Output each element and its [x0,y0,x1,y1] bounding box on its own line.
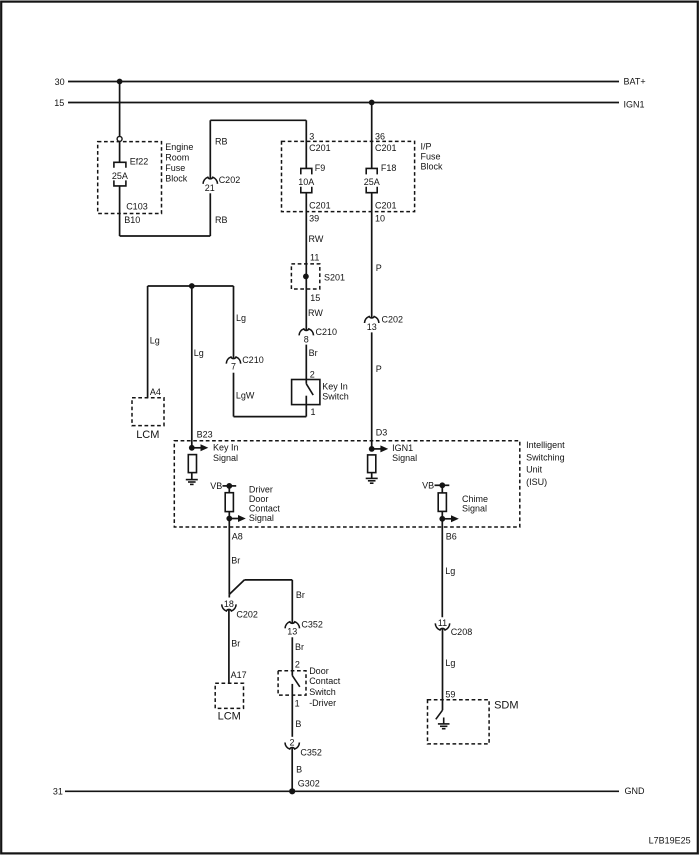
wire Br to door switch [291,637,293,670]
label Engine Room Fuse Block [165,142,193,184]
node VB chime dot [439,482,445,488]
svg-text:RB: RB [215,215,228,225]
svg-text:Door: Door [309,666,329,676]
wire resistor to ground [191,473,193,480]
resistor D3 [368,455,376,473]
label Door Contact Switch -Driver [309,666,341,708]
junction dot on bus 30 [117,79,123,85]
svg-text:Switch: Switch [309,687,336,697]
svg-text:Br: Br [231,555,240,565]
svg-text:B23: B23 [197,430,213,440]
svg-text:S201: S201 [324,273,345,283]
svg-text:Switching: Switching [526,452,565,462]
connector 8 C210 [299,329,313,336]
connector 2 C352 [285,743,299,750]
svg-text:LCM: LCM [136,429,159,441]
wire Lg to ISU B23 [191,286,193,448]
svg-text:C202: C202 [219,175,241,185]
arrow Key In Signal [192,444,209,451]
svg-text:Engine: Engine [165,142,193,152]
wire LgW vertical below connector 7 [233,373,235,417]
svg-text:C352: C352 [300,747,322,757]
Engine Room Fuse Block box [98,142,162,214]
svg-text:B10: B10 [124,215,140,225]
svg-text:Lg: Lg [445,658,455,668]
svg-text:18: 18 [224,599,234,609]
connector 18 C202 [222,604,236,611]
svg-text:Signal: Signal [249,513,274,523]
svg-text:F9: F9 [315,163,326,173]
wire VB dot to resistor [228,486,230,493]
svg-text:3: 3 [309,131,314,141]
svg-text:Driver: Driver [249,485,273,495]
svg-text:2: 2 [295,659,300,669]
svg-text:15: 15 [310,293,320,303]
svg-text:C103: C103 [126,202,148,212]
svg-text:25A: 25A [112,171,128,181]
svg-text:13: 13 [287,626,297,636]
svg-text:P: P [376,263,382,273]
svg-text:B: B [296,765,302,775]
arrow Chime Signal [442,515,459,522]
svg-text:B: B [295,719,301,729]
I/P Fuse Block box [282,141,415,211]
svg-text:31: 31 [53,787,63,797]
label Intelligent Switching Unit (ISU) [526,440,565,487]
svg-text:Intelligent: Intelligent [526,440,565,450]
Door Contact Switch box [278,671,306,695]
node B6 junction dot [439,516,445,522]
wire resistor to node B6 [441,511,443,527]
svg-text:Fuse: Fuse [165,163,185,173]
connector 11 C208 [435,623,449,630]
svg-text:1: 1 [311,407,316,417]
wire RW from F9 to connector 8 [305,193,307,331]
svg-text:IGN1: IGN1 [624,99,645,109]
svg-text:IGN1: IGN1 [392,443,413,453]
ground SDM [438,718,450,729]
label Chime Signal [462,494,488,514]
svg-text:8: 8 [304,335,309,345]
svg-text:Br: Br [296,590,305,600]
door switch pin 2 stub [291,671,293,676]
junction dot G302 [289,788,295,794]
svg-text:Switch: Switch [322,392,349,402]
wire RB horizontal top [210,119,306,121]
svg-text:Contact: Contact [249,504,281,514]
svg-text:Block: Block [165,174,188,184]
svg-text:RW: RW [309,234,324,244]
wire RB up to connector 21 [209,193,211,236]
SDM switch blade [436,710,443,719]
svg-text:I/P: I/P [421,142,432,152]
svg-text:A4: A4 [150,387,161,397]
svg-text:F18: F18 [381,163,397,173]
svg-text:2: 2 [310,369,315,379]
svg-text:25A: 25A [364,177,380,187]
label IGN1 Signal [392,443,417,463]
svg-text:11: 11 [310,252,319,262]
fuse Ef22 [114,162,126,186]
svg-text:C202: C202 [236,609,258,619]
svg-text:10A: 10A [298,177,314,187]
svg-text:VB: VB [422,481,434,491]
svg-text:Signal: Signal [213,453,238,463]
arrow IGN1 Signal [372,445,389,452]
resistor chime [438,493,446,512]
svg-text:Signal: Signal [462,503,487,513]
svg-text:A8: A8 [232,531,243,541]
wire P to ISU D3 [371,332,373,449]
ground B23 [186,480,198,485]
label I/P Fuse Block [421,142,444,172]
wire Br branch down [291,580,293,623]
svg-text:SDM: SDM [494,699,518,711]
wire resistor to node A8 [228,512,230,527]
bus 31 GND wire [65,790,619,792]
svg-text:21: 21 [205,183,215,193]
svg-text:2: 2 [289,737,294,747]
svg-text:C210: C210 [242,355,264,365]
bus 15 IGN1 wire [68,102,619,104]
svg-text:39: 39 [309,213,319,223]
svg-text:Contact: Contact [309,676,341,686]
svg-text:Lg: Lg [445,566,455,576]
Intelligent Switching Unit box [174,441,520,527]
resistor driver door [225,493,233,512]
svg-text:Lg: Lg [150,335,160,345]
door switch blade [292,676,300,687]
wire P from F18 to connector 13 [371,193,373,318]
svg-text:30: 30 [55,77,65,87]
label Key In Signal [213,443,239,464]
wire VB dot to resistor [441,485,443,493]
svg-text:L7B19E25: L7B19E25 [649,836,691,846]
svg-text:VB: VB [210,481,222,491]
svg-text:C201: C201 [375,201,397,211]
svg-text:Chime: Chime [462,494,488,504]
wire branch horizontal [244,579,292,581]
svg-text:Fuse: Fuse [421,152,441,162]
splice S201 box [291,264,319,289]
resistor B23 [188,455,196,473]
LCM A17 box [215,683,243,708]
connector 7 C210 [226,357,240,364]
svg-text:7: 7 [231,362,236,372]
svg-text:13: 13 [367,322,377,332]
svg-text:LCM: LCM [218,711,241,723]
fuse F9 [301,168,312,192]
SDM box [428,700,490,744]
bus 30 BAT+ wire [68,81,619,83]
svg-text:36: 36 [375,131,385,141]
svg-text:RB: RB [215,136,228,146]
splice S201 dot [303,274,309,280]
Key In Switch pin 2 stub [305,380,307,384]
svg-text:Door: Door [249,494,269,504]
door switch pin 1 stub [291,684,293,737]
svg-text:LgW: LgW [236,391,255,401]
wire Lg connector 11 to SDM [442,628,444,710]
node A8 junction dot [226,516,232,522]
svg-text:1: 1 [295,699,300,709]
svg-text:Key In: Key In [322,382,348,392]
connector 13 C352 [285,622,299,629]
Key In Switch box [292,380,320,405]
wire Br connector 18 to A17 [228,609,230,683]
svg-text:B6: B6 [446,531,457,541]
wire VB stub [223,485,237,487]
wire circle to fuse Ef22 [119,141,121,162]
svg-text:Unit: Unit [526,465,543,475]
svg-text:15: 15 [54,98,64,108]
svg-text:A17: A17 [231,670,247,680]
wire resistor to ground [371,473,373,479]
svg-text:GND: GND [625,786,646,796]
wire RB above connector 21 [209,120,211,179]
wire branch diagonal [229,580,244,595]
wire LgW horizontal [234,416,307,418]
wire into I/P fuse block pin 3 [305,120,307,168]
svg-text:Ef22: Ef22 [130,157,149,167]
connector 21 C202 [203,177,217,184]
wire Lg to LCM A4 [147,286,149,398]
node B23 junction dot [189,445,195,451]
wire bus30 to Engine Room Fuse Block [119,82,121,137]
svg-text:(ISU): (ISU) [526,477,547,487]
svg-text:BAT+: BAT+ [624,77,646,87]
open circle terminal B+ [117,136,122,141]
svg-text:G302: G302 [298,779,320,789]
label Driver Door Contact Signal [249,485,281,523]
svg-text:Lg: Lg [236,313,246,323]
wire VB stub [435,484,450,486]
wire Br connector 8 to Key In Switch [305,345,307,380]
svg-text:11: 11 [438,618,447,628]
svg-text:C201: C201 [375,143,397,153]
svg-text:-Driver: -Driver [309,698,336,708]
svg-text:C210: C210 [316,327,338,337]
svg-text:Br: Br [231,639,240,649]
svg-text:Br: Br [309,348,318,358]
svg-text:Signal: Signal [392,453,417,463]
node VB driver dot [226,483,232,489]
ground D3 [366,478,378,483]
fuse F18 [366,168,377,192]
svg-text:C208: C208 [451,627,473,637]
wire RB horizontal bottom [120,235,211,237]
connector 13 C202 [365,316,379,323]
label Key In Switch [322,382,349,402]
svg-text:59: 59 [445,690,455,700]
svg-text:Key In: Key In [213,443,239,453]
wire stub above connector 18 [228,594,230,597]
svg-text:C202: C202 [382,314,404,324]
svg-text:10: 10 [375,213,385,223]
svg-text:Room: Room [165,153,189,163]
wire Br from A8 [228,527,230,594]
LCM A4 box [132,398,164,426]
arrow Driver Door Contact Signal [229,515,246,522]
Key In Switch pin 1 stub [305,396,307,417]
wire fuse Ef22 down [119,186,121,236]
svg-text:C201: C201 [309,201,331,211]
wire Lg horizontal [148,285,234,287]
wire Lg from B6 [441,527,443,617]
svg-text:Block: Block [421,162,444,172]
wire B to G302 [291,748,293,792]
junction dot Lg [189,283,195,289]
svg-text:RW: RW [308,308,323,318]
svg-text:C201: C201 [309,143,331,153]
svg-text:Br: Br [295,642,304,652]
junction dot on bus 15 [369,100,375,106]
node D3 junction dot [369,446,375,452]
svg-text:Lg: Lg [194,348,204,358]
svg-text:C352: C352 [301,620,323,630]
wire IGN1 down to pin 36 [371,103,373,169]
wire Lg above connector 7 [233,286,235,359]
svg-text:D3: D3 [376,427,388,437]
Key In Switch blade [306,384,313,395]
svg-text:P: P [376,364,382,374]
